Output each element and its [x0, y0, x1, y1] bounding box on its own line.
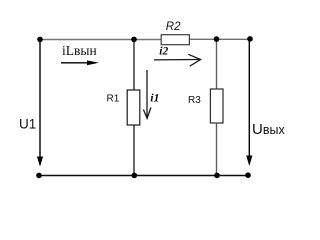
node top-far-right: [247, 36, 253, 42]
resistor R3: [210, 89, 223, 123]
svg-text:i1: i1: [150, 90, 159, 104]
svg-text:i2: i2: [159, 45, 168, 57]
svg-text:Uвых: Uвых: [252, 121, 285, 138]
svg-text:R3: R3: [188, 95, 201, 106]
node bottom-far-right: [245, 172, 251, 178]
arrow i2 current: [154, 54, 201, 66]
wire top rail right segment: [189, 38, 250, 40]
resistor R1: [127, 90, 140, 125]
node bottom-right R3: [214, 173, 220, 179]
wire R3 bottom lead: [216, 123, 218, 176]
node bottom-left: [36, 173, 42, 179]
wire Uвых arrow stem: [248, 39, 250, 156]
wire top rail left segment: [40, 39, 162, 41]
svg-text:R1: R1: [107, 94, 120, 105]
node top-middle: [131, 37, 137, 43]
arrowhead U1: [37, 157, 43, 167]
resistor R2: [161, 35, 189, 45]
svg-text:U1: U1: [19, 116, 36, 131]
arrow i1 current: [143, 70, 151, 118]
arrowhead Uвых: [246, 156, 252, 167]
wire U1 arrow stem: [39, 40, 41, 159]
arrow iL current: [61, 60, 99, 65]
wire bottom rail: [39, 175, 248, 177]
svg-text:R2: R2: [166, 21, 181, 33]
svg-text:iLвын: iLвын: [62, 43, 97, 58]
wire R1 top lead: [133, 40, 135, 91]
node bottom-middle: [132, 173, 138, 179]
node top-left: [37, 37, 43, 43]
wire R3 top lead: [216, 39, 218, 89]
wire R1 bottom lead: [133, 125, 135, 176]
node top-right R3 tap: [214, 36, 220, 42]
